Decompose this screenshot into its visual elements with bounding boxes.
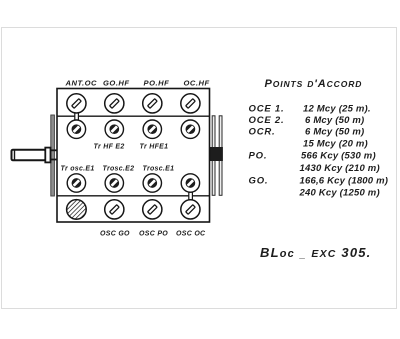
svg-text:OCE 2.: OCE 2. <box>249 115 285 126</box>
svg-text:OSC OC: OSC OC <box>176 231 206 238</box>
svg-text:15 Mcy (20 m): 15 Mcy (20 m) <box>303 139 368 150</box>
svg-text:240 Kcy (1250 m): 240 Kcy (1250 m) <box>299 188 380 199</box>
svg-text:OSC GO: OSC GO <box>100 231 130 238</box>
svg-text:6 Mcy (50 m): 6 Mcy (50 m) <box>305 127 364 138</box>
svg-text:12 Mcy (25 m).: 12 Mcy (25 m). <box>303 104 371 115</box>
svg-text:Trosc.E2: Trosc.E2 <box>103 166 135 173</box>
svg-text:Trosc.E1: Trosc.E1 <box>143 166 175 173</box>
svg-text:GO.: GO. <box>249 176 269 187</box>
svg-text:OSC PO: OSC PO <box>139 231 168 238</box>
svg-text:BLoc _ EXC 305.: BLoc _ EXC 305. <box>260 245 372 260</box>
svg-text:GO.HF: GO.HF <box>103 79 130 88</box>
svg-text:566 Kcy (530 m): 566 Kcy (530 m) <box>301 151 376 162</box>
svg-text:POINTS D'ACCORD: POINTS D'ACCORD <box>265 78 363 90</box>
svg-text:Tr HF E2: Tr HF E2 <box>94 144 125 151</box>
svg-text:Tr HFE1: Tr HFE1 <box>140 144 169 151</box>
svg-text:OCE 1.: OCE 1. <box>249 104 285 115</box>
svg-text:166,6 Kcy (1800 m): 166,6 Kcy (1800 m) <box>300 176 389 187</box>
svg-text:1430 Kcy (210 m): 1430 Kcy (210 m) <box>300 163 380 174</box>
svg-text:Tr osc.E1: Tr osc.E1 <box>61 166 95 173</box>
svg-text:OC.HF: OC.HF <box>184 79 210 88</box>
svg-text:OCR.: OCR. <box>249 127 276 138</box>
svg-text:6 Mcy (50 m): 6 Mcy (50 m) <box>305 115 364 126</box>
svg-text:ANT.OC: ANT.OC <box>65 79 98 88</box>
svg-text:PO.HF: PO.HF <box>144 79 170 88</box>
svg-text:PO.: PO. <box>249 151 268 162</box>
